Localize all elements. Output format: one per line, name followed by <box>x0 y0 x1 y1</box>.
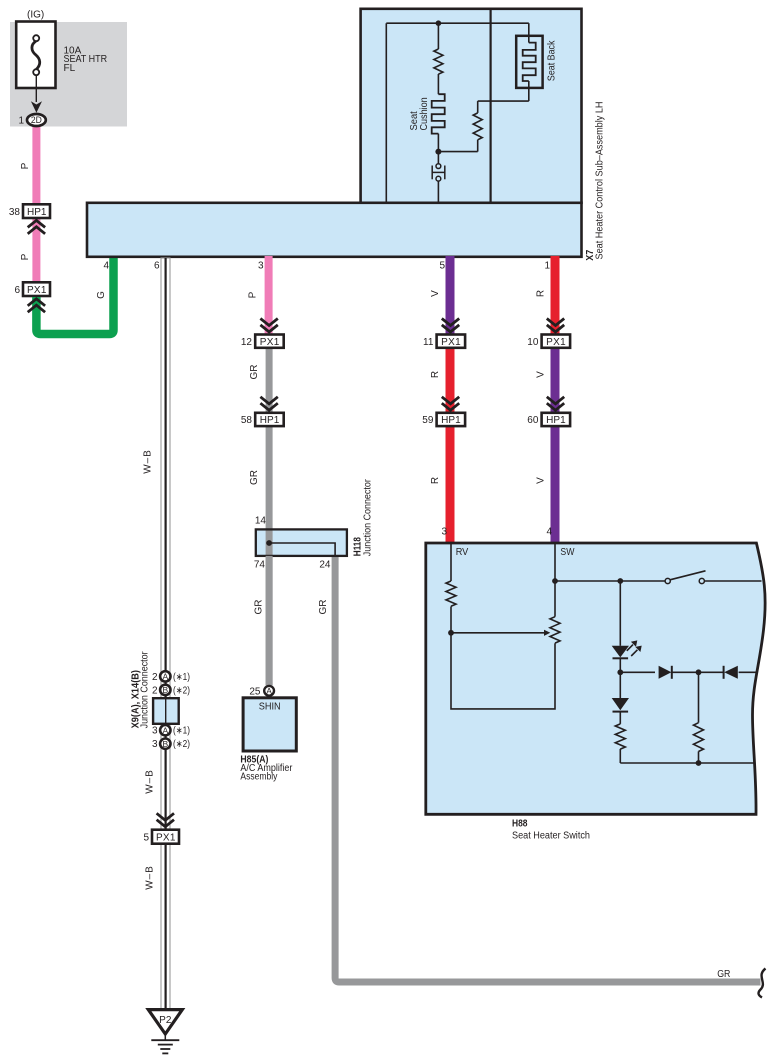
svg-text:Seat Heater Control Sub–Assemb: Seat Heater Control Sub–Assembly LH <box>595 102 606 260</box>
svg-text:4: 4 <box>103 261 109 272</box>
svg-text:3: 3 <box>258 261 264 272</box>
svg-text:HP1: HP1 <box>546 415 566 426</box>
svg-text:1: 1 <box>544 261 550 272</box>
svg-text:(∗2): (∗2) <box>173 685 190 696</box>
svg-text:SHIN: SHIN <box>259 702 281 713</box>
svg-text:GR: GR <box>717 969 730 980</box>
svg-text:G: G <box>96 291 107 299</box>
svg-text:12: 12 <box>241 337 253 348</box>
svg-text:5: 5 <box>439 261 445 272</box>
svg-text:HP1: HP1 <box>27 207 47 218</box>
svg-text:P2: P2 <box>159 1015 172 1026</box>
svg-text:6: 6 <box>154 261 160 272</box>
svg-text:A: A <box>162 672 168 682</box>
svg-text:1: 1 <box>18 116 24 127</box>
svg-text:Seat Back: Seat Back <box>547 40 558 81</box>
svg-text:5: 5 <box>143 833 149 844</box>
svg-text:HP1: HP1 <box>260 415 280 426</box>
svg-text:R: R <box>430 477 441 484</box>
svg-text:14: 14 <box>255 516 267 527</box>
svg-text:R: R <box>536 290 547 297</box>
svg-text:3: 3 <box>152 739 158 750</box>
svg-text:(∗1): (∗1) <box>173 726 190 737</box>
svg-text:PX1: PX1 <box>156 833 176 844</box>
svg-text:V: V <box>536 477 547 484</box>
svg-text:SW: SW <box>560 547 574 558</box>
svg-text:(∗1): (∗1) <box>173 672 190 683</box>
svg-text:GR: GR <box>249 470 260 485</box>
svg-text:Seat Heater Switch: Seat Heater Switch <box>512 831 590 842</box>
svg-text:3: 3 <box>441 527 447 538</box>
svg-text:60: 60 <box>527 415 539 426</box>
svg-text:74: 74 <box>254 559 266 570</box>
svg-text:HP1: HP1 <box>441 415 461 426</box>
svg-text:A: A <box>266 686 272 696</box>
svg-text:25: 25 <box>249 687 261 698</box>
svg-text:PX1: PX1 <box>546 337 566 348</box>
svg-text:11: 11 <box>423 337 434 348</box>
svg-text:Junction Connector: Junction Connector <box>363 479 374 557</box>
svg-text:W–B: W–B <box>145 770 156 794</box>
svg-text:R: R <box>430 371 441 378</box>
svg-text:58: 58 <box>241 415 253 426</box>
svg-text:P: P <box>20 253 31 260</box>
svg-text:A: A <box>162 725 168 735</box>
svg-text:GR: GR <box>318 600 329 615</box>
svg-text:GR: GR <box>249 365 260 380</box>
svg-text:Cushion: Cushion <box>419 97 430 130</box>
svg-text:59: 59 <box>422 415 434 426</box>
svg-text:H88: H88 <box>512 819 528 830</box>
svg-text:6: 6 <box>14 285 20 296</box>
svg-text:V: V <box>536 371 547 378</box>
svg-text:24: 24 <box>319 559 331 570</box>
svg-text:P: P <box>248 291 259 298</box>
svg-text:Assembly: Assembly <box>240 772 277 783</box>
svg-text:4: 4 <box>546 527 552 538</box>
svg-text:2D: 2D <box>31 115 42 125</box>
svg-text:FL: FL <box>64 63 76 74</box>
svg-text:V: V <box>430 290 441 297</box>
svg-text:2: 2 <box>152 672 158 683</box>
svg-text:W–B: W–B <box>145 866 156 890</box>
svg-text:3: 3 <box>152 726 158 737</box>
svg-text:PX1: PX1 <box>260 337 280 348</box>
svg-text:2: 2 <box>152 685 158 696</box>
svg-text:Junction Connector: Junction Connector <box>140 651 151 729</box>
svg-text:38: 38 <box>9 207 21 218</box>
svg-text:RV: RV <box>456 547 469 558</box>
svg-text:10: 10 <box>527 337 539 348</box>
svg-text:(IG): (IG) <box>27 10 44 21</box>
svg-text:B: B <box>162 685 168 695</box>
svg-text:PX1: PX1 <box>441 337 461 348</box>
svg-text:W–B: W–B <box>143 450 154 474</box>
svg-text:GR: GR <box>254 600 265 615</box>
svg-text:PX1: PX1 <box>27 285 47 296</box>
svg-text:(∗2): (∗2) <box>173 739 190 750</box>
svg-text:B: B <box>162 739 168 749</box>
svg-text:P: P <box>20 162 31 169</box>
